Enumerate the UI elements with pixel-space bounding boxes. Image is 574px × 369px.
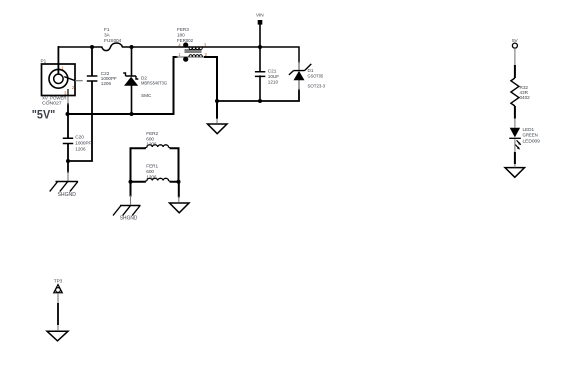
svg-text:SHGND: SHGND (58, 192, 77, 198)
svg-text:3: 3 (64, 90, 67, 95)
svg-text:1206: 1206 (101, 81, 112, 86)
svg-text:D2: D2 (141, 75, 147, 80)
svg-text:GREEN: GREEN (523, 133, 538, 138)
svg-text:FUS004: FUS004 (104, 38, 122, 43)
svg-text:FER2: FER2 (146, 131, 158, 136)
svg-text:1206: 1206 (146, 174, 157, 179)
svg-text:F1: F1 (104, 27, 110, 32)
svg-text:10UF: 10UF (268, 74, 279, 79)
svg-text:1206: 1206 (75, 146, 86, 151)
svg-text:SMC: SMC (141, 93, 152, 98)
svg-text:1210: 1210 (268, 79, 279, 84)
svg-text:FER3: FER3 (177, 27, 189, 32)
svg-text:3A: 3A (104, 32, 111, 37)
svg-text:MBRS540T3G: MBRS540T3G (141, 81, 167, 86)
svg-text:1: 1 (178, 52, 181, 57)
svg-text:1000PF: 1000PF (75, 140, 91, 145)
svg-text:600: 600 (146, 169, 154, 174)
svg-text:VIN: VIN (256, 13, 264, 18)
svg-text:C21: C21 (268, 68, 277, 73)
svg-text:SHGND: SHGND (120, 216, 138, 222)
svg-text:SOT23-3: SOT23-3 (308, 83, 326, 88)
svg-text:1206: 1206 (146, 142, 157, 147)
svg-text:1: 1 (61, 66, 64, 71)
svg-text:0402: 0402 (520, 95, 531, 100)
svg-text:5V: 5V (512, 38, 519, 43)
svg-text:TP3: TP3 (54, 278, 63, 283)
svg-text:CON027: CON027 (42, 101, 62, 106)
svg-text:P1: P1 (41, 58, 47, 63)
svg-text:LED009: LED009 (523, 138, 541, 143)
svg-text:"5V": "5V" (32, 108, 56, 122)
svg-text:LED1: LED1 (523, 127, 535, 132)
svg-text:180: 180 (177, 33, 185, 38)
svg-text:D1: D1 (308, 68, 314, 73)
svg-text:FER1: FER1 (146, 164, 158, 169)
svg-text:GSOT05: GSOT05 (308, 73, 324, 78)
svg-text:600: 600 (146, 136, 154, 141)
svg-text:C20: C20 (75, 134, 84, 139)
